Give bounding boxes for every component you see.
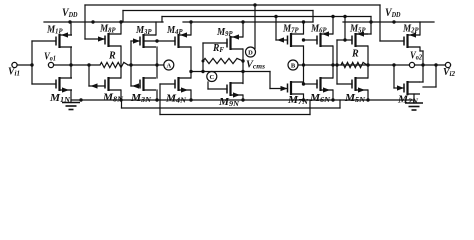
wire M8N gate riser xyxy=(88,65,90,86)
wire M6P source riser xyxy=(332,17,334,35)
wire M5P gate lead xyxy=(337,39,352,41)
junction on left rail xyxy=(91,20,94,23)
wire Vo1 node line xyxy=(54,64,100,66)
junction M6 drains / line xyxy=(331,63,334,66)
arrow M8P gate xyxy=(98,36,105,41)
junction M4P source on center rail xyxy=(189,20,192,23)
wire M5P drain down to M5N drain xyxy=(367,46,369,78)
wire M3P source to VDD xyxy=(155,22,157,35)
wire L3 left drop to left rail end xyxy=(161,17,163,23)
node D xyxy=(246,47,256,57)
wire M6N gate lead xyxy=(304,83,318,85)
node A xyxy=(164,60,174,70)
wire L2b right riser xyxy=(339,100,341,108)
junction RF left / gate riser xyxy=(202,60,205,63)
wire M2N top lead extension xyxy=(420,81,423,83)
wire M3P drain to M4P gate xyxy=(144,40,176,42)
resistor R left xyxy=(100,62,128,67)
transistor M7P (PMOS) xyxy=(288,33,304,47)
wire node A vertical M3P drain to M3N drain xyxy=(156,47,158,78)
wire M7P source to VDD xyxy=(303,22,305,34)
node B xyxy=(288,60,298,70)
terminal Vo1 xyxy=(48,62,53,67)
junction M7P drain / M6P gate xyxy=(302,38,305,41)
junction R right / M5 drains xyxy=(366,63,369,66)
transistor M2P (PMOS) xyxy=(404,32,420,48)
transistor M2N (NMOS) xyxy=(404,81,420,95)
ground left xyxy=(62,102,80,104)
junction RF right / M9P drain xyxy=(241,59,244,62)
wire Vi1 riser to M1P/M1N gates xyxy=(31,41,33,84)
wire M7P gate lead xyxy=(276,39,288,41)
wire M9N gate lead xyxy=(208,88,227,90)
junction M5P source / L3 on right rail xyxy=(369,20,372,23)
wire top routing line L3 xyxy=(162,16,371,18)
wire Vi1 stub xyxy=(17,64,32,66)
transistor M3P (PMOS) xyxy=(140,34,156,48)
junction L3 / M6P source riser xyxy=(331,15,334,18)
wire node B stub xyxy=(298,64,304,66)
junction Vo1 / M1 drains xyxy=(69,63,72,66)
wire M4N gate lead xyxy=(160,83,175,85)
terminal Vi2 xyxy=(445,62,450,67)
arrow M7P gate xyxy=(277,37,284,42)
junction M7N source xyxy=(302,98,305,101)
wire M1P gate lead xyxy=(32,40,56,42)
transistor M8P (PMOS) xyxy=(105,33,121,47)
wire node A bubble stub xyxy=(157,64,164,66)
junction Vcms node on center line xyxy=(241,70,244,73)
svg-text:D: D xyxy=(248,49,253,56)
junction M5N source xyxy=(366,98,369,101)
svg-text:A: A xyxy=(166,62,171,69)
junction RF left tap xyxy=(201,70,204,73)
wire VDD rail right segment xyxy=(343,21,434,23)
wire node B vertical M7P drain to M7N drain xyxy=(303,46,305,84)
wire M4P source to VDD xyxy=(190,22,192,35)
junction on right rail xyxy=(392,20,395,23)
wire M8N source to ground rail xyxy=(120,90,122,100)
wire M8P gate lead from L1 xyxy=(85,38,105,40)
transistor M9P (PMOS) xyxy=(227,34,243,50)
wire top routing line L2 xyxy=(123,10,313,12)
transistor M5P (PMOS) xyxy=(352,31,368,47)
wire Vi2 loop stub xyxy=(423,86,436,88)
junction M7P source on center rail xyxy=(302,20,305,23)
wire M6 drain to R right xyxy=(415,64,446,66)
ground right xyxy=(405,102,423,104)
wire M8P source to VDD xyxy=(120,22,122,34)
junction on ground rail xyxy=(79,98,82,101)
junction node A top xyxy=(155,39,158,42)
wire L1 right drop to M2P gate xyxy=(379,5,381,41)
arrow M8N gate xyxy=(91,83,98,88)
wire M7N gate lead xyxy=(270,88,288,90)
wire L1 left drop to M8P gate xyxy=(84,5,86,39)
wire M9P drain down through Vcms node to M9N drain xyxy=(242,49,244,84)
wire M1P source to VDD xyxy=(70,22,72,35)
wire M2N gate riser xyxy=(393,65,395,88)
arrow M3N gate xyxy=(132,83,139,88)
wire M6P gate lead xyxy=(304,39,318,41)
junction M8P source on rail xyxy=(119,20,122,23)
wire M8P drain down to M8N drain xyxy=(120,46,122,78)
wire M2P source to VDD xyxy=(419,22,421,35)
svg-text:R: R xyxy=(351,49,359,60)
wire M1N source to ground xyxy=(70,90,72,103)
wire Vi2 drop xyxy=(435,65,437,87)
transistor M5N (NMOS) xyxy=(352,77,368,93)
wire M2N drain to Vo2 xyxy=(422,65,424,82)
arrow M3P gate xyxy=(133,38,140,43)
wire M2P drain down to Vo2 node xyxy=(422,51,424,65)
junction M8N source xyxy=(119,98,122,101)
junction Vi1 node xyxy=(30,63,33,66)
transistor M6P (PMOS) xyxy=(317,31,333,47)
wire M9N source to ground rail xyxy=(242,95,244,100)
wire M9P gate riser down to RF/center line xyxy=(202,43,204,72)
junction L1 center xyxy=(253,3,256,6)
node C xyxy=(207,72,217,82)
wire M3N source to ground rail xyxy=(156,90,158,100)
wire bottom routing line L2b xyxy=(122,107,341,109)
wire riser R-node right to M5P gate / M5N gate xyxy=(336,40,338,84)
wire L3 right drop through rail to M5P source xyxy=(370,17,372,35)
junction M9P source on center rail xyxy=(241,20,244,23)
wire L1 drop to node D bubble xyxy=(254,5,256,48)
arrow M2N gate xyxy=(397,85,404,90)
wire L2 left drop to VDD rail xyxy=(122,11,124,23)
wire M6P drain down to M6N drain xyxy=(332,46,334,78)
wire M6N source to ground rail xyxy=(332,90,334,100)
wire M5N source to ground rail xyxy=(367,90,369,100)
junction M8N gate riser xyxy=(87,63,90,66)
wire L3b right riser xyxy=(309,100,311,115)
wire M2N gate lead xyxy=(394,87,404,89)
wire VDD rail left segment xyxy=(44,21,163,23)
wire M3P gate lead xyxy=(131,40,140,42)
arrow M7N gate xyxy=(281,86,288,91)
terminal Vi1 xyxy=(12,62,17,67)
junction M9N source xyxy=(241,98,244,101)
junction M4N source xyxy=(189,98,192,101)
wire M9P gate lead xyxy=(203,42,227,44)
junction node B on drain vertical xyxy=(302,63,305,66)
junction M2N gate riser on Vo2 line xyxy=(392,63,395,66)
wire M2P drain jog xyxy=(420,50,423,52)
wire center common-mode line xyxy=(191,71,270,73)
junction M6N source xyxy=(331,98,334,101)
transistor M4N (NMOS) xyxy=(175,77,191,93)
transistor M3N (NMOS) xyxy=(140,77,156,91)
wire center line drop to M7N gate xyxy=(269,72,271,89)
junction node A mid xyxy=(155,63,158,66)
svg-text:B: B xyxy=(291,62,296,69)
wire M3N gate lead xyxy=(131,85,140,87)
wire riser R-node to M3P gate / M3N gate xyxy=(130,41,132,86)
transistor M4P (PMOS) xyxy=(175,32,191,48)
wire M9P source to VDD xyxy=(242,22,244,37)
wire M1N gate lead xyxy=(32,83,56,85)
wire ground rail xyxy=(71,99,414,101)
wire R to node A xyxy=(128,64,157,66)
terminal Vo2 xyxy=(409,62,414,67)
junction M2 drains / Vo2 xyxy=(421,63,424,66)
junction L3 / M7P gate drop xyxy=(274,15,277,18)
junction M5P gate riser crossing xyxy=(335,63,338,66)
wire M7N source to ground rail xyxy=(303,94,305,100)
wire M4N gate riser to bottom line L3b xyxy=(159,84,161,115)
wire M2P drain xyxy=(419,47,421,51)
svg-text:R: R xyxy=(108,51,116,62)
transistor M1P (PMOS) xyxy=(56,32,72,48)
resistor R right xyxy=(341,62,367,67)
junction M4 drains xyxy=(189,70,192,73)
wire VDD rail center segment xyxy=(183,21,313,23)
junction M5P gate lead / L3 riser xyxy=(343,38,346,41)
wire bottom routing line L3b xyxy=(160,114,310,116)
junction L3 / M5P gate riser xyxy=(343,15,346,18)
wire M1N drain to Vo1 xyxy=(70,65,72,78)
junction M3N source xyxy=(155,98,158,101)
wire L2 right drop to center rail end xyxy=(312,11,314,23)
wire M5N gate lead xyxy=(337,83,352,85)
transistor M8N (NMOS) xyxy=(105,77,121,91)
wire M5P gate riser xyxy=(344,17,346,41)
junction node B / M6N gate xyxy=(302,82,305,85)
transistor M6N (NMOS) xyxy=(317,77,333,93)
wire bottom line L2b left riser xyxy=(121,100,123,108)
svg-text:C: C xyxy=(209,74,214,81)
wire net-D top routing line L1 xyxy=(85,4,380,6)
wire M4P drain down to M4N drain xyxy=(190,47,192,78)
wire M1P drain to Vo1 node xyxy=(70,47,72,65)
wire M2P gate lead from L1 xyxy=(380,40,404,42)
wire M2N source to ground xyxy=(413,94,415,103)
wire M9N gate riser from C xyxy=(207,82,209,89)
junction M1P source on rail xyxy=(68,20,71,23)
junction Vi2 node xyxy=(434,63,437,66)
wire M4N source to ground rail xyxy=(190,90,192,100)
transistor M7N (NMOS) xyxy=(288,81,304,95)
transistor M9N (NMOS) xyxy=(227,82,243,98)
wire Vo2 node line left part xyxy=(304,64,410,66)
resistor RF xyxy=(203,58,243,63)
wire M5P top lead extension xyxy=(356,33,372,35)
junction R right end xyxy=(129,63,132,66)
wire M7P gate drop xyxy=(275,17,277,41)
transistor M1N (NMOS) xyxy=(56,77,72,93)
wire M8N gate lead xyxy=(89,85,105,87)
